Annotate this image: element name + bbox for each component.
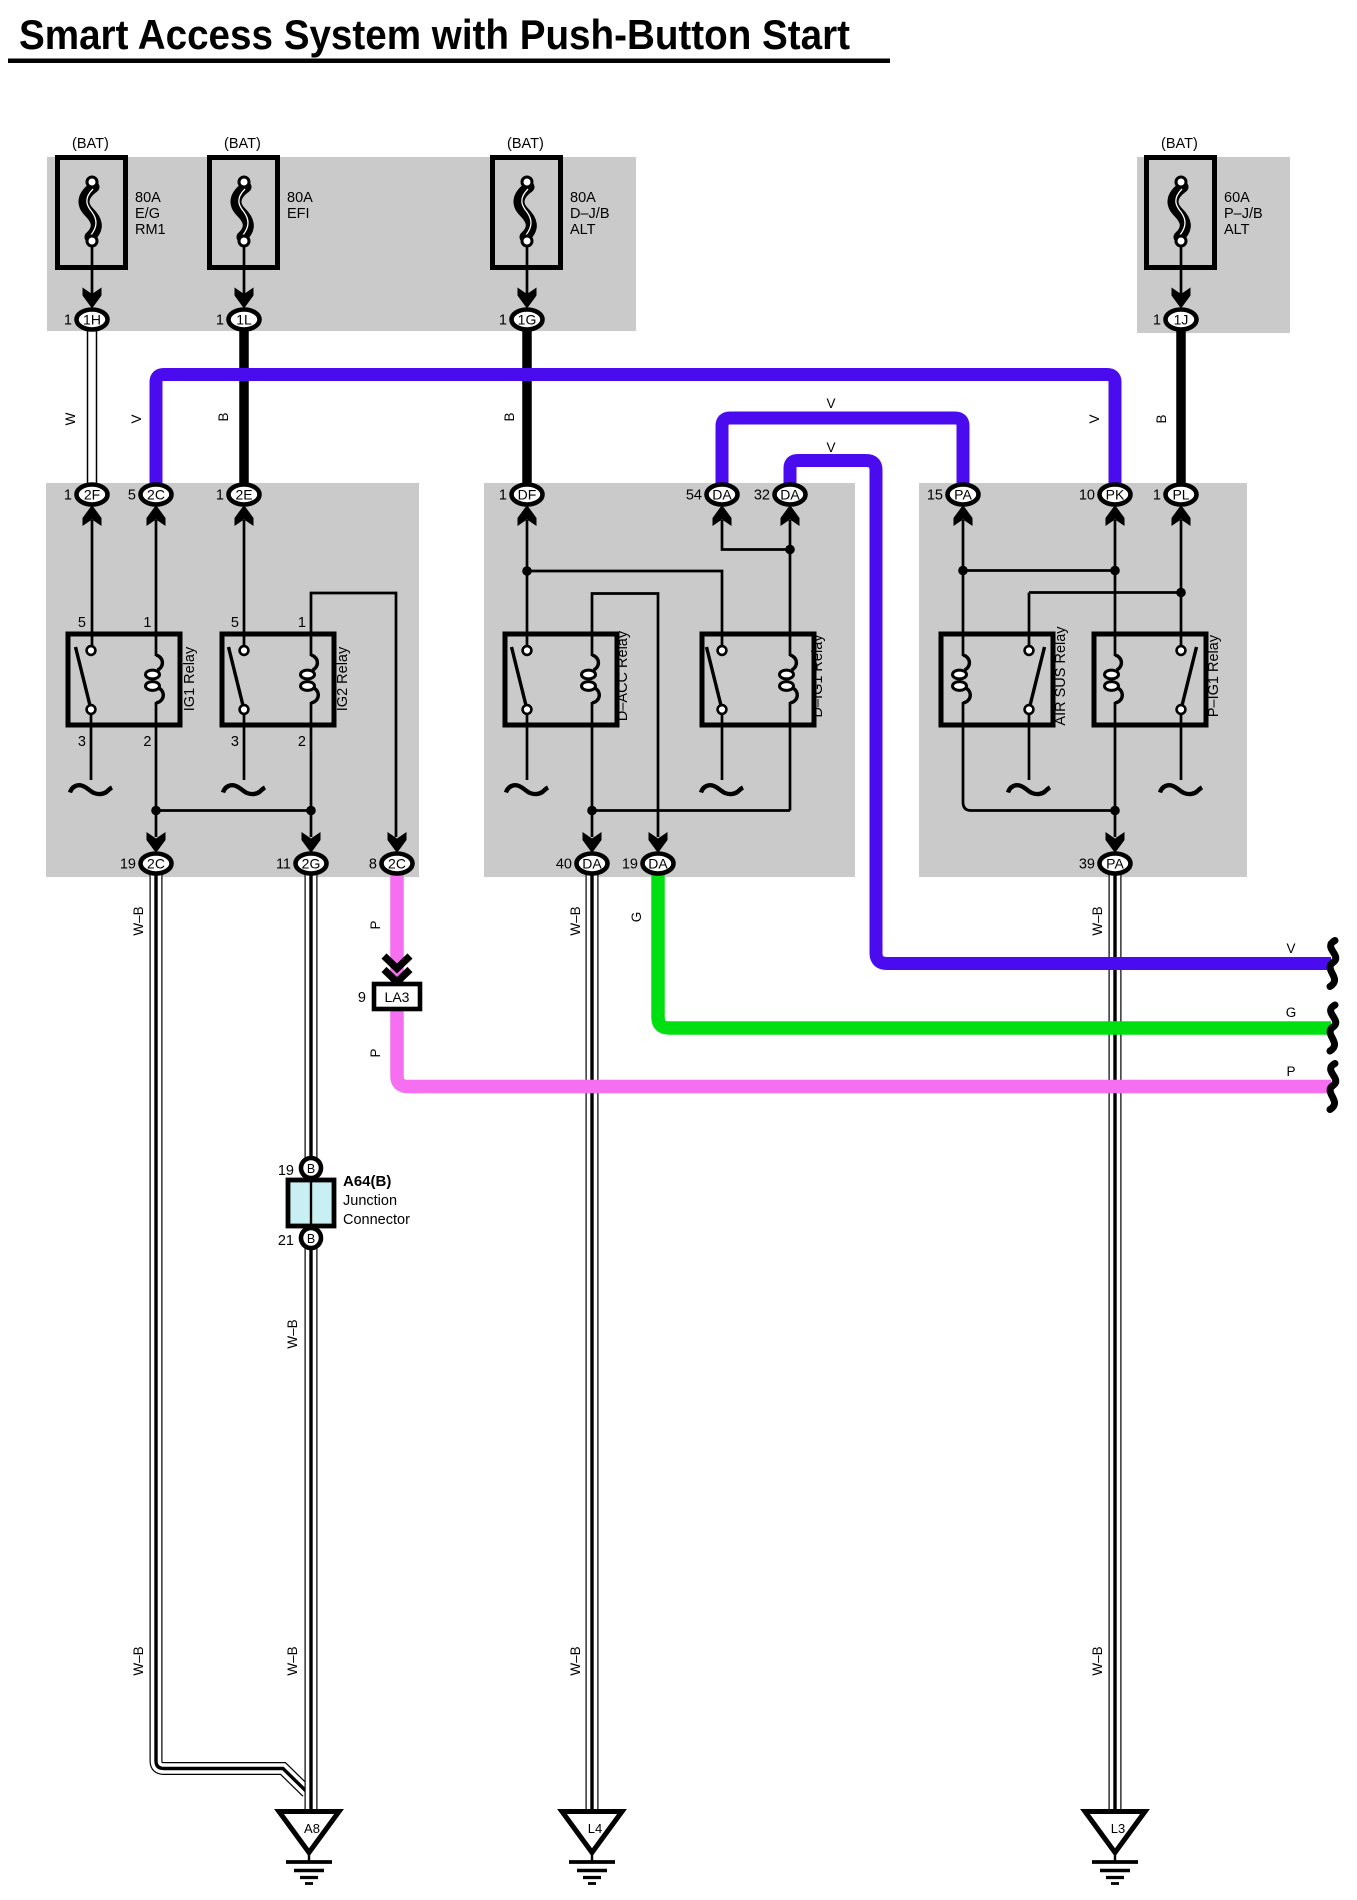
connector 2C pin 19	[120, 832, 172, 874]
wire B from 1L to 2E	[239, 330, 249, 485]
wire DF to D-ACC switch	[526, 520, 529, 647]
svg-text:G: G	[1286, 1005, 1297, 1020]
svg-text:LA3: LA3	[385, 989, 410, 1005]
wire IG2 switch pin3 down	[243, 714, 246, 780]
svg-text:E/G: E/G	[135, 206, 160, 222]
relay D-IG1	[702, 634, 814, 725]
svg-text:W–B: W–B	[131, 906, 146, 935]
wire 2F to IG1 switch	[91, 520, 94, 647]
svg-text:32: 32	[754, 488, 770, 504]
wire DA54 to DA32 line	[722, 520, 790, 550]
svg-text:V: V	[826, 396, 835, 411]
svg-text:D–IG1 Relay: D–IG1 Relay	[810, 634, 826, 718]
svg-text:2F: 2F	[84, 487, 100, 503]
wire G from DA19 to right edge	[658, 872, 1331, 1028]
svg-text:L3: L3	[1111, 1821, 1125, 1836]
svg-text:1L: 1L	[236, 312, 252, 328]
svg-text:54: 54	[686, 488, 702, 504]
ground L4	[562, 1812, 622, 1884]
svg-text:W–B: W–B	[131, 1646, 146, 1675]
svg-text:1J: 1J	[1174, 312, 1189, 328]
svg-text:Connector: Connector	[343, 1212, 410, 1228]
svg-text:A64(B): A64(B)	[343, 1173, 391, 1190]
svg-text:DA: DA	[780, 487, 800, 503]
svg-text:DA: DA	[582, 856, 602, 872]
connector PA pin 39	[1079, 832, 1131, 874]
svg-text:(BAT): (BAT)	[507, 136, 544, 152]
wire V from DA54 to PA15	[722, 418, 963, 486]
svg-text:80A: 80A	[570, 190, 596, 206]
svg-text:B: B	[307, 1232, 315, 1246]
gray box: IG relay block	[46, 483, 419, 877]
svg-text:1G: 1G	[518, 312, 537, 328]
node	[785, 545, 795, 555]
wave D-ACC	[506, 785, 548, 794]
connector PL pin 1	[1153, 485, 1197, 527]
wire P-IG1 coil down	[1114, 702, 1117, 837]
svg-text:W–B: W–B	[568, 1646, 583, 1675]
svg-text:60A: 60A	[1224, 190, 1250, 206]
connector DA pin 19	[622, 832, 674, 874]
svg-text:5: 5	[78, 615, 86, 631]
connector DA pin 54	[686, 485, 738, 527]
wire P from 2C8 through LA3 to right edge	[397, 872, 1331, 1087]
svg-text:40: 40	[556, 857, 572, 873]
svg-text:DF: DF	[518, 487, 537, 503]
wire D-IG1 coil down	[789, 702, 792, 811]
relay IG2	[222, 615, 334, 750]
squiggle end P	[1330, 1064, 1336, 1110]
svg-text:B: B	[216, 412, 231, 421]
connector 1J pin 1	[1153, 288, 1197, 330]
svg-text:1H: 1H	[83, 312, 101, 328]
connector 2G pin 11	[276, 832, 327, 874]
svg-text:V: V	[129, 414, 144, 423]
svg-text:W–B: W–B	[568, 906, 583, 935]
wire PL to P-IG1 switch	[1180, 520, 1183, 647]
svg-text:(BAT): (BAT)	[224, 136, 261, 152]
relay D-ACC	[505, 634, 617, 725]
svg-text:P–J/B: P–J/B	[1224, 206, 1263, 222]
wire W-B from DA40 to L4 ground	[586, 873, 599, 1811]
connector PK pin 10	[1079, 485, 1131, 527]
connector 2E pin 1	[216, 485, 260, 527]
svg-text:W–B: W–B	[285, 1319, 300, 1348]
connector 2F pin 1	[64, 485, 108, 527]
svg-text:PA: PA	[1106, 856, 1124, 872]
connector 1L pin 1	[216, 288, 260, 330]
gray box: top right fuse band	[1137, 157, 1290, 333]
gray box: top fuse band	[47, 157, 636, 331]
wire B from 1G to DF	[522, 330, 532, 485]
gray box: D relay block	[484, 483, 855, 877]
wire P-IG1 switch down	[1180, 714, 1183, 780]
svg-text:IG1 Relay: IG1 Relay	[182, 646, 198, 711]
svg-text:2: 2	[143, 734, 151, 750]
chevron arrows to LA3	[384, 956, 410, 982]
svg-text:(BAT): (BAT)	[72, 136, 109, 152]
svg-text:D–J/B: D–J/B	[570, 206, 610, 222]
fuse EFI 80A	[210, 136, 314, 268]
svg-text:PA: PA	[954, 487, 972, 503]
svg-text:2: 2	[298, 734, 306, 750]
svg-text:W–B: W–B	[1090, 906, 1105, 935]
wire IG1 switch pin3 down	[90, 714, 93, 780]
svg-text:19: 19	[120, 857, 136, 873]
wire PA15-PK10 junction	[963, 569, 1115, 572]
svg-text:B: B	[1154, 414, 1169, 423]
wire D-ACC switch down	[526, 714, 529, 780]
svg-text:PK: PK	[1106, 487, 1125, 503]
svg-text:1: 1	[143, 615, 151, 631]
svg-text:3: 3	[231, 734, 239, 750]
squiggle end G	[1330, 1005, 1336, 1051]
svg-text:10: 10	[1079, 488, 1095, 504]
svg-text:PL: PL	[1172, 487, 1189, 503]
svg-text:IG2 Relay: IG2 Relay	[335, 646, 351, 711]
svg-text:2C: 2C	[147, 856, 165, 872]
svg-text:RM1: RM1	[135, 222, 166, 238]
connector 2C pin 8	[369, 832, 413, 874]
connector DF pin 1	[499, 485, 543, 527]
svg-text:(BAT): (BAT)	[1161, 136, 1198, 152]
svg-text:1: 1	[1153, 313, 1161, 329]
wire DA32 to D-IG1 coil	[789, 520, 792, 656]
wire 2E to IG2 switch	[243, 520, 246, 647]
svg-text:2C: 2C	[388, 856, 406, 872]
node	[522, 566, 532, 576]
svg-text:8: 8	[369, 857, 377, 873]
svg-text:W: W	[63, 412, 78, 425]
svg-text:DA: DA	[648, 856, 668, 872]
svg-text:19: 19	[622, 857, 638, 873]
wire fuse to connector x=244	[243, 246, 246, 296]
svg-text:2E: 2E	[235, 487, 252, 503]
svg-text:B: B	[307, 1162, 315, 1176]
wire PK10 to P-IG1 coil	[1114, 520, 1117, 656]
svg-text:1: 1	[1153, 488, 1161, 504]
svg-text:V: V	[1087, 414, 1102, 423]
wire AIR SUS coil down over to PK line	[963, 702, 1115, 811]
wire D-IG1 switch down	[721, 714, 724, 780]
splice LA3	[358, 984, 420, 1009]
node	[151, 806, 161, 816]
svg-text:Smart Access System with Push-: Smart Access System with Push-Button Sta…	[19, 11, 850, 58]
wire IG1 coil pin2 down	[155, 702, 158, 837]
svg-text:P: P	[368, 1048, 383, 1057]
svg-text:A8: A8	[304, 1821, 320, 1836]
svg-text:1: 1	[216, 313, 224, 329]
wire PL branch to AIR SUS switch	[1029, 591, 1181, 594]
svg-text:9: 9	[358, 990, 366, 1006]
connector DA pin 40	[556, 832, 608, 874]
fuse ALT 80A	[493, 136, 610, 268]
wire D-ACC coil pin up over to DA19	[592, 594, 658, 838]
node	[1110, 806, 1120, 816]
connector DA pin 32	[754, 485, 806, 527]
svg-text:W–B: W–B	[1090, 1646, 1105, 1675]
wire V from DA32 to right edge	[790, 461, 1331, 964]
svg-text:D–ACC Relay: D–ACC Relay	[615, 630, 631, 721]
wave D-IG1	[701, 785, 743, 794]
connector 1H pin 1	[64, 288, 108, 330]
gray box: P relay block	[919, 483, 1247, 877]
svg-text:ALT: ALT	[570, 222, 596, 238]
connector 2C pin 5	[128, 485, 172, 527]
ground L3	[1085, 1812, 1145, 1884]
wire W-B from 2G11 to A8 ground	[305, 873, 318, 1811]
svg-text:L4: L4	[588, 1821, 602, 1836]
wave IG1 pin3	[70, 785, 112, 794]
svg-text:1: 1	[499, 488, 507, 504]
svg-text:2C: 2C	[147, 487, 165, 503]
wire fuse to connector x=1181	[1180, 246, 1183, 296]
wave IG2 pin3	[223, 785, 265, 794]
svg-text:W–B: W–B	[285, 1646, 300, 1675]
svg-text:1: 1	[64, 488, 72, 504]
wire W-B from PA39 to L3 ground	[1109, 873, 1122, 1811]
svg-text:DA: DA	[712, 487, 732, 503]
svg-text:V: V	[826, 440, 835, 455]
svg-text:P: P	[368, 920, 383, 929]
svg-text:3: 3	[78, 734, 86, 750]
connector PA pin 15	[927, 485, 979, 527]
relay AIR SUS	[941, 634, 1053, 725]
wire fuse to connector x=92	[91, 246, 94, 296]
wire V main from 2C to PK	[156, 375, 1115, 487]
svg-text:P: P	[1286, 1064, 1295, 1079]
svg-text:1: 1	[216, 488, 224, 504]
svg-text:P–IG1 Relay: P–IG1 Relay	[1206, 634, 1222, 717]
wire DF branch to D-IG1 switch	[527, 571, 722, 647]
node	[587, 806, 597, 816]
wire IG2 coil pin2 down	[310, 702, 313, 837]
svg-text:5: 5	[128, 488, 136, 504]
wire down to AIR SUS switch	[1028, 593, 1031, 648]
svg-text:EFI: EFI	[287, 206, 310, 222]
svg-text:11: 11	[276, 857, 291, 873]
fuse ALT 60A	[1147, 136, 1263, 268]
fuse RM1 80A	[58, 136, 166, 268]
svg-text:39: 39	[1079, 857, 1095, 873]
svg-text:1: 1	[499, 313, 507, 329]
wire PA15 to AIR SUS coil	[962, 520, 965, 656]
wire B from 1J to PL	[1176, 330, 1186, 485]
node	[958, 566, 968, 576]
wire D-ACC coil down	[591, 702, 594, 837]
svg-text:5: 5	[231, 615, 239, 631]
wire AIR SUS switch down	[1028, 714, 1031, 780]
svg-text:AIR SUS Relay: AIR SUS Relay	[1053, 626, 1069, 726]
svg-text:19: 19	[278, 1163, 294, 1179]
node	[1176, 588, 1186, 598]
wire W-B from 2C19 to A8 (bent)	[156, 873, 307, 1792]
junction connector A64(B)	[278, 1158, 410, 1249]
relay P-IG1	[1094, 634, 1206, 725]
svg-text:V: V	[1286, 941, 1295, 956]
squiggle end V	[1330, 941, 1336, 987]
svg-text:1: 1	[64, 313, 72, 329]
wire junction IG1-IG2	[156, 809, 311, 812]
relay IG1	[68, 615, 180, 750]
svg-text:15: 15	[927, 488, 943, 504]
title underline	[8, 59, 890, 64]
svg-text:B: B	[502, 412, 517, 421]
svg-text:G: G	[629, 912, 644, 923]
connector 1G pin 1	[499, 288, 543, 330]
wire 2C to IG1 coil	[155, 520, 158, 656]
svg-text:80A: 80A	[287, 190, 313, 206]
svg-text:ALT: ALT	[1224, 222, 1250, 238]
wire IG2 coil pin1 up over to 2C8	[311, 593, 396, 837]
ground A8	[279, 1812, 339, 1884]
wire fuse to connector x=527	[526, 246, 529, 296]
wave AIR SUS	[1008, 785, 1050, 794]
svg-text:2G: 2G	[302, 856, 321, 872]
svg-text:Junction: Junction	[343, 1193, 397, 1209]
svg-text:80A: 80A	[135, 190, 161, 206]
wave P-IG1	[1160, 785, 1202, 794]
wire W from 1H to 2F (double line)	[88, 331, 97, 484]
wire junction D relays	[592, 809, 790, 812]
svg-text:21: 21	[278, 1233, 294, 1249]
svg-text:1: 1	[298, 615, 306, 631]
